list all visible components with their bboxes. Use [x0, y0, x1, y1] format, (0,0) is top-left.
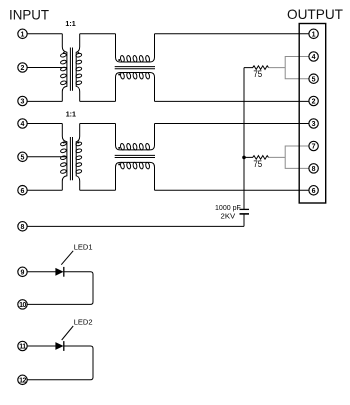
wire choke L2 top to output pin 3	[155, 123, 309, 125]
LED1 diode	[55, 267, 63, 277]
input pin 4	[18, 119, 27, 128]
input pin 10	[18, 300, 27, 309]
output pin 8	[309, 164, 318, 173]
svg-text:2KV: 2KV	[221, 211, 236, 220]
input pin 1	[18, 29, 27, 38]
LED2 diode	[55, 341, 63, 351]
wire pin2 to T1 primary center tap	[27, 67, 67, 69]
svg-text:75: 75	[253, 159, 262, 169]
wire bracket output pins 4-5	[285, 57, 309, 79]
svg-text:2: 2	[21, 65, 25, 72]
choke L1 bottom winding	[116, 72, 155, 101]
LED1 pointer line	[61, 251, 73, 265]
wire pin5 to T2 primary center tap	[27, 156, 67, 158]
wire choke L2 bottom to output pin 6	[155, 189, 309, 191]
svg-text:INPUT: INPUT	[9, 7, 49, 23]
wire R1 to capacitor C1 top	[243, 68, 245, 210]
input pin 3	[18, 96, 27, 105]
svg-text:8: 8	[312, 166, 316, 173]
choke L1 core	[115, 67, 155, 69]
wire pin9 to LED1 anode	[27, 271, 55, 273]
transformer T2 primary winding	[60, 124, 67, 191]
input pin 5	[18, 152, 27, 161]
choke L2 bottom winding	[116, 162, 155, 190]
LED2 pointer line	[62, 326, 73, 340]
transformer T1 secondary winding	[76, 34, 82, 102]
transformer T1 core	[70, 48, 72, 91]
output pin 6	[309, 186, 318, 195]
wire choke L1 top to output pin 1	[155, 33, 309, 35]
wire T1 secondary bottom to choke L1 bottom	[80, 100, 116, 102]
svg-text:8: 8	[21, 224, 25, 231]
transformer T1 primary winding	[60, 34, 67, 102]
choke L2 top winding	[116, 124, 155, 151]
output connector box	[299, 24, 326, 204]
input pin 11	[18, 341, 27, 350]
output pin 3	[309, 119, 318, 128]
svg-text:5: 5	[312, 76, 316, 83]
wire pin6 to T2 primary bottom	[27, 189, 62, 191]
svg-text:1:1: 1:1	[65, 19, 76, 28]
wire LED2 cathode loop to pin 12	[27, 346, 93, 380]
svg-text:75: 75	[253, 69, 262, 79]
transformer T2 secondary winding	[76, 124, 82, 191]
svg-text:6: 6	[21, 188, 25, 195]
resistor R2 75 ohm	[244, 156, 285, 160]
svg-text:9: 9	[21, 269, 25, 276]
wire choke L1 bottom to output pin 2	[155, 100, 309, 102]
input pin 9	[18, 267, 27, 276]
wire bracket output pins 7-8	[285, 146, 309, 168]
choke L2 core	[115, 155, 155, 157]
wire T2 secondary bottom to choke L2 bottom	[80, 189, 116, 191]
wire pin8 to capacitor C1 bottom	[27, 225, 244, 227]
svg-text:2: 2	[312, 99, 316, 106]
choke L1 top winding	[116, 34, 155, 63]
svg-text:3: 3	[21, 99, 25, 106]
svg-text:11: 11	[19, 344, 26, 351]
svg-text:6: 6	[312, 188, 316, 195]
input pin 6	[18, 186, 27, 195]
junction dot R2 tap	[242, 156, 246, 160]
svg-text:4: 4	[21, 121, 25, 128]
output pin 2	[309, 96, 318, 105]
wire pin3 to T1 primary bottom	[27, 100, 62, 102]
wire pin4 to T2 primary top	[27, 123, 62, 125]
svg-text:10: 10	[19, 302, 26, 309]
output pin 4	[309, 52, 318, 61]
input pin 8	[18, 222, 27, 231]
transformer T2 core	[70, 137, 72, 180]
svg-text:1: 1	[312, 31, 316, 38]
wire pin1 to T1 primary top	[27, 33, 62, 35]
capacitor C1	[240, 209, 250, 226]
svg-text:LED2: LED2	[74, 318, 93, 327]
wire T2 secondary top to choke L2 top	[80, 123, 116, 125]
svg-text:4: 4	[312, 54, 316, 61]
svg-text:1:1: 1:1	[66, 109, 77, 118]
output pin 5	[309, 74, 318, 83]
wire pin11 to LED2 anode	[27, 345, 55, 347]
svg-text:7: 7	[312, 144, 316, 151]
output pin 1	[309, 29, 318, 38]
svg-text:3: 3	[312, 121, 316, 128]
input pin 12	[18, 375, 27, 384]
svg-text:1: 1	[21, 31, 25, 38]
resistor R1 75 ohm	[244, 66, 285, 70]
output pin 7	[309, 141, 318, 150]
input pin 2	[18, 63, 27, 72]
wire LED1 cathode loop to pin 10	[27, 272, 93, 305]
svg-text:12: 12	[19, 377, 26, 384]
wire T1 secondary top to choke L1 top	[80, 33, 116, 35]
svg-text:5: 5	[21, 154, 25, 161]
svg-text:LED1: LED1	[74, 243, 93, 252]
svg-text:OUTPUT: OUTPUT	[287, 6, 343, 22]
